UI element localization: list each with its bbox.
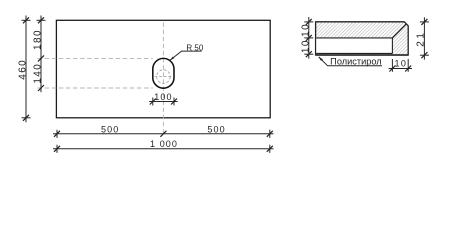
tick 1000 right [267,146,273,152]
tick sec left top [306,19,312,25]
extension serif bottom at 460 line [22,117,31,119]
hidden dashed circle inside hole [157,70,171,84]
tick sec left mid [306,35,312,41]
tick sec right bottom [421,52,427,58]
svg-text:21: 21 [415,30,426,46]
svg-text:100: 100 [154,92,172,102]
tick 460 top [23,17,29,23]
hole inner horizontal centerline [155,76,173,78]
tick 500 left [54,131,60,137]
miter joint diagonal [392,24,406,38]
svg-text:140: 140 [33,63,44,84]
section bottom dimension line 10 [389,68,412,70]
extension serif left of 100 [152,98,154,106]
tick sec bottom right [405,66,411,72]
extension serif left at 1000 line [56,145,58,153]
extension serif right at 1000 line [269,145,271,153]
tick 180 top [38,17,44,23]
dimension line 180/140 (vertical, inner left) [40,16,42,93]
tick sec bottom left [389,66,395,72]
section bottom extension left [391,59,393,72]
section right dimension line 21 [423,17,425,59]
polystyrene white layer [316,38,392,54]
extension serif top at 180 line [37,19,46,21]
svg-text:Полистирол: Полистирол [330,56,382,66]
tick 1000 left [54,146,60,152]
leader line R50 [170,51,201,60]
svg-text:R 50: R 50 [186,43,203,52]
tick 180 bottom [38,55,44,61]
centerline vertical (hole axis) [162,23,164,137]
svg-text:500: 500 [101,125,119,135]
dimension line 1000 [53,148,274,150]
serif sec right top [420,21,429,23]
leader arrow R50 [170,57,174,61]
polystyrene layer top line [316,37,392,39]
section bottom extension right [407,59,409,72]
svg-text:500: 500 [207,125,225,135]
polystyrene leader line [319,57,382,66]
svg-text:460: 460 [17,59,28,80]
obround hole R50 [153,58,174,88]
extension serif top at 460 line [22,19,31,21]
tick 500 middle [160,131,166,137]
dimension line 460 (vertical, far left) [25,16,27,123]
tick sec left low [306,51,312,57]
polystyrene layer right line [391,38,393,54]
serif at section low left [304,53,313,55]
svg-text:10: 10 [301,39,312,53]
tick 500 right [267,131,273,137]
dimension 100 line under hole [149,101,177,103]
tick 100 left [150,99,156,105]
polystyrene leader arrow [319,57,323,61]
section profile hatched body [316,22,409,55]
svg-text:10: 10 [301,23,312,37]
tick 100 right [171,99,177,105]
tick sec right top [421,19,427,25]
svg-text:10: 10 [394,58,407,68]
extension serif right at 500 line [269,130,271,138]
svg-text:180: 180 [33,29,44,50]
section left dimension line 10/10 [308,17,310,59]
serif sec right bottom [420,54,429,56]
section bottom thick edge [316,54,409,56]
plate outline (top view rectangle) [56,20,270,118]
extension serif right of 100 [173,98,175,106]
extension serif left at 500 line [56,130,58,138]
tick 140 bottom [38,85,44,91]
svg-text:1 000: 1 000 [150,139,178,149]
centerline horizontal lower (320 level) [38,87,153,89]
dimension line 500/500 [53,133,274,135]
serif at section mid left [304,37,313,39]
serif at section top left [304,21,313,23]
tick 460 bottom [23,115,29,121]
polystyrene layer bottom line [316,52,392,54]
centerline horizontal upper (180 level) [38,57,153,59]
